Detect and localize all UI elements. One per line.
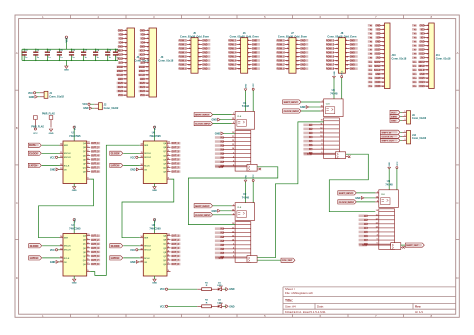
U4 74148 lower pin row 4 [379, 223, 395, 225]
svg-text:IO24: IO24 [420, 81, 426, 84]
connector J9 pin 2 [402, 115, 406, 117]
connector J4 pin 5 [123, 46, 128, 48]
no-connect on U1 second output [257, 168, 261, 170]
svg-text:14: 14 [232, 238, 234, 241]
svg-text:GND: GND [202, 61, 207, 63]
connector J5 pin 8 [198, 51, 202, 53]
svg-text:Size: A4: Size: A4 [285, 305, 296, 309]
svg-text:13: 13 [232, 235, 234, 237]
UU5 output net label QG [91, 166, 100, 169]
svg-text:P4: P4 [370, 36, 373, 39]
connector J9 net label pin 2 [390, 114, 400, 118]
wire input row 5 to U4 [367, 231, 379, 233]
UU7 output net label QF [91, 255, 100, 258]
svg-text:13: 13 [376, 222, 378, 224]
connector J4 pin 17 [123, 94, 128, 96]
UU6 pin QE [167, 158, 171, 160]
svg-text:C2: C2 [25, 50, 27, 52]
wire strobe to U4 [366, 244, 391, 246]
connector J10 pin 13 [380, 73, 385, 75]
svg-text:74148: 74148 [385, 183, 393, 187]
capacitor C7 [83, 49, 85, 52]
svg-text:ROW_6: ROW_6 [228, 61, 237, 63]
svg-text:C6: C6 [72, 50, 74, 52]
U1 input net label row 1 [215, 136, 224, 139]
wire input row 1 to U4 [367, 215, 379, 217]
LED D1 [218, 286, 224, 291]
connector J11 pin 4 [424, 36, 429, 38]
svg-text:Conn_01x03: Conn_01x03 [412, 137, 427, 140]
svg-text:GND: GND [300, 57, 305, 59]
connector J9 pin 3 [402, 120, 406, 122]
connector J3 pin 1 [145, 29, 150, 31]
svg-text:SCLK: SCLK [374, 70, 381, 72]
svg-text:LATCH: LATCH [111, 257, 119, 260]
svg-text:GND: GND [229, 305, 235, 308]
connector J11 pin 6 [424, 45, 429, 47]
U2 74148 lower body [235, 222, 251, 263]
capacitor C9 [107, 49, 109, 52]
U4 input net label row 1 [359, 215, 368, 218]
svg-text:P5: P5 [414, 42, 417, 44]
UU5 pin 13 OE [60, 168, 64, 170]
UU5 pin 9 QH' [87, 178, 91, 180]
UU5 output net label QD [91, 154, 100, 157]
svg-text:OUT_2: OUT_2 [91, 240, 99, 242]
svg-text:1: 1 [233, 113, 234, 115]
connector J10 pin 9 [380, 57, 385, 59]
svg-text:IO4: IO4 [141, 41, 145, 44]
svg-text:MISO: MISO [419, 66, 425, 68]
U3 74148 lower pin row 7 [324, 144, 340, 146]
svg-text:VCC: VCC [130, 156, 135, 159]
wire strobe to U2 [222, 257, 247, 259]
connector J12 wire pin 2 [400, 135, 402, 137]
svg-text:6: 6 [233, 164, 234, 166]
svg-text:GND: GND [300, 52, 305, 54]
U4 input net label row 7 [359, 239, 368, 242]
svg-text:74148: 74148 [242, 104, 250, 108]
svg-text:10: 10 [140, 248, 142, 250]
U4 74148 GND power symbol on top [388, 168, 390, 190]
connector J9 wire pin 1 [400, 111, 402, 113]
svg-text:14: 14 [320, 135, 322, 138]
U1 input net label row 7 [215, 161, 224, 164]
U4 GND tie pin 15 [361, 197, 364, 200]
frame column tick 1 [70, 15, 72, 19]
svg-text:P1: P1 [414, 25, 417, 27]
U3 74148 lower pin row 8 [324, 148, 340, 150]
svg-text:2: 2 [168, 242, 169, 244]
svg-text:11: 11 [60, 152, 62, 154]
svg-text:13: 13 [232, 144, 234, 146]
UU6 VCC tie on SRCLR [136, 156, 138, 158]
U1 pin SHIFT row [232, 114, 236, 116]
U2 74148 lower pin row 3 [235, 232, 251, 234]
svg-text:ROW_8: ROW_8 [179, 69, 188, 71]
svg-text:Conn_01x02: Conn_01x02 [49, 96, 64, 99]
wire U1 output to U2 SER loop [188, 167, 277, 225]
connector J3 pin 9 [145, 62, 150, 64]
svg-text:VCC: VCC [397, 161, 399, 166]
svg-text:Conn_01x02: Conn_01x02 [104, 107, 119, 110]
connector J8 pin 8 [345, 51, 349, 53]
connector J10 pin 16 [380, 85, 385, 87]
connector J8 pin 13 [334, 64, 338, 66]
svg-text:11: 11 [141, 152, 143, 154]
wire input row 5 to U3 [312, 140, 324, 142]
U3 74148 lower pin row 1 [324, 120, 340, 122]
svg-text:OUT_6: OUT_6 [91, 256, 99, 258]
power VCC for R2 [165, 305, 167, 307]
connector J1 pin 2 [40, 96, 44, 98]
connector J12 wire pin 3 [400, 139, 402, 141]
U1 74148 lower pin row 2 [235, 136, 251, 138]
UU7 74HC595 body [63, 234, 87, 277]
svg-text:P13: P13 [369, 74, 373, 76]
svg-text:P7: P7 [414, 50, 417, 52]
connector J10 pin 12 [380, 69, 385, 71]
UU6 74HC595 VCC power symbol [154, 128, 156, 141]
U3 74148 GND power symbol on top [333, 77, 335, 99]
svg-text:GND: GND [64, 70, 69, 72]
svg-text:OUT_4: OUT_4 [171, 154, 179, 157]
svg-text:P15: P15 [369, 82, 373, 84]
UU6 pin QF [167, 162, 171, 164]
UU5 74HC595 VCC power symbol [73, 128, 75, 141]
svg-text:SRCLK: SRCLK [144, 153, 151, 155]
wire input row 7 to U4 [367, 239, 379, 241]
connector J12 net label pin 2 [381, 134, 401, 138]
svg-text:ROW_4: ROW_4 [326, 51, 335, 54]
wire input row 3 to U2 [223, 236, 235, 238]
svg-text:3: 3 [168, 246, 169, 248]
svg-text:ROW_7: ROW_7 [228, 65, 237, 67]
svg-text:P11: P11 [413, 66, 417, 68]
svg-text:GND: GND [140, 30, 145, 32]
svg-text:GND: GND [118, 47, 123, 49]
wire input row 6 to U1 [223, 157, 235, 159]
connector J9 wire pin 2 [400, 115, 402, 117]
UU7 pin 12 RCLK [60, 257, 64, 259]
svg-text:CLOCK_INPUT: CLOCK_INPUT [339, 202, 355, 204]
U3 input net label row 6 [303, 144, 312, 147]
wire input row 8 to U3 [312, 152, 324, 154]
UU5 pin QC [87, 150, 91, 152]
U4 input net label row 3 [359, 223, 368, 226]
svg-text:6: 6 [321, 152, 322, 154]
connector J11 pin 15 [424, 81, 429, 83]
svg-text:LATCH: LATCH [30, 257, 38, 260]
svg-text:GND: GND [350, 44, 355, 46]
wire U6 QH' to U8 SER [122, 179, 174, 238]
svg-text:CLK: CLK [237, 207, 242, 209]
UU6 GND tie on OE [136, 168, 139, 171]
svg-text:Rev:: Rev: [415, 305, 421, 309]
svg-text:OUT_8: OUT_8 [171, 264, 179, 266]
connector J3 pin 16 [145, 90, 150, 92]
UU8 74HC595 VCC power symbol [154, 221, 156, 234]
svg-text:ROW_1: ROW_1 [228, 40, 237, 42]
U3 74148 lower pin row 6 [324, 140, 340, 142]
UU5 pin QH [87, 171, 91, 173]
svg-text:GND: GND [355, 197, 361, 200]
connector J7 pin 6 [296, 47, 300, 49]
UU6 pin 11 SRCLK [140, 152, 144, 154]
svg-text:12: 12 [232, 231, 234, 233]
UU5 output net label QA [91, 142, 100, 145]
svg-text:74HC595: 74HC595 [69, 134, 81, 138]
connector J3 pin 13 [145, 78, 150, 80]
UU7 output net label QG [91, 259, 100, 262]
svg-text:ROW_3: ROW_3 [276, 48, 285, 50]
connector J10 pin 4 [380, 36, 385, 38]
U1 input net label row 2 [215, 140, 224, 143]
connector J7 pin 7 [285, 51, 289, 53]
svg-text:GND: GND [152, 283, 157, 285]
svg-text:ROW_2: ROW_2 [179, 44, 188, 46]
svg-text:IO22: IO22 [420, 54, 426, 56]
svg-text:ROW_8: ROW_8 [228, 69, 237, 71]
U3 input net label row 7 [303, 148, 312, 151]
svg-text:OUT_1: OUT_1 [171, 143, 179, 145]
frame column tick 3 [181, 15, 183, 19]
svg-text:SRCLR: SRCLR [64, 157, 71, 159]
UU8 GND tie on OE [136, 261, 139, 264]
svg-text:C5: C5 [60, 50, 62, 52]
U1 74148 inner function box [237, 119, 246, 126]
svg-text:GND: GND [300, 106, 306, 109]
wire input row 1 to U2 [223, 228, 235, 230]
UU6 74HC595 body [143, 141, 167, 184]
svg-text:3: 3 [168, 154, 169, 156]
svg-text:1u: 1u [109, 57, 112, 59]
svg-text:1: 1 [404, 131, 405, 133]
connector J6 pin 15 [237, 68, 241, 70]
U2 74148 output box [247, 256, 257, 263]
svg-text:10: 10 [232, 132, 234, 134]
U1 74148 lower pin row 4 [235, 145, 251, 147]
connector J5 pin 16 [198, 68, 202, 70]
connector J2 VCC [88, 103, 90, 105]
svg-text:P1: P1 [370, 25, 373, 27]
U1 input net label row 5 [215, 152, 224, 155]
connector J6 pin 2 [248, 39, 252, 41]
svg-text:2: 2 [377, 200, 378, 202]
svg-text:GND: GND [300, 40, 305, 42]
svg-text:GND: GND [252, 48, 257, 50]
svg-text:GND: GND [215, 132, 221, 135]
U4 74148 lower body [379, 209, 395, 250]
connector J3 pin 5 [145, 46, 150, 48]
connector J6 pin 8 [248, 51, 252, 53]
wire U2 second output to label [257, 259, 281, 261]
capacitor C4 [46, 49, 48, 52]
connector J10 pin 3 [380, 32, 385, 34]
svg-text:SER: SER [144, 238, 149, 240]
svg-text:IN4: IN4 [220, 149, 224, 152]
connector J5 pin 6 [198, 47, 202, 49]
connector J11 pin 8 [424, 53, 429, 55]
wire U2 output up to U3 SER chain [257, 122, 324, 258]
svg-text:R: R [206, 285, 208, 287]
wire LATCH to UU8 RCLK [123, 257, 140, 259]
svg-text:P16: P16 [369, 86, 373, 88]
svg-text:15: 15 [232, 118, 234, 120]
svg-text:GND: GND [118, 30, 123, 32]
connector J3 pin 14 [145, 82, 150, 84]
svg-text:IO4: IO4 [421, 36, 425, 39]
svg-text:RCLK: RCLK [144, 165, 150, 167]
UU8 output net label QA [171, 234, 180, 237]
svg-text:GND: GND [202, 44, 207, 46]
U2 input net label row 6 [215, 248, 224, 251]
U4 74148 lower pin row 1 [379, 211, 395, 213]
svg-text:GND: GND [252, 69, 257, 71]
connector J4 body [127, 28, 135, 97]
connector J7 pin 4 [296, 43, 300, 45]
svg-text:GND: GND [252, 61, 257, 63]
connector J8 pin 2 [345, 39, 349, 41]
wire CLOCK to UU7 SRCLK [42, 245, 59, 247]
connector J7 pin 11 [285, 60, 289, 62]
net label COLUMN on U2 second output [281, 258, 295, 262]
svg-text:VCC: VCC [66, 37, 69, 42]
svg-text:ROW_2: ROW_2 [276, 44, 285, 46]
U4 global label CLOCK_INPUT [338, 200, 357, 204]
U2 74148 lower pin row 1 [235, 224, 251, 226]
wire DATA to UU5 SER [42, 144, 60, 146]
UU7 global label CLOCK [29, 244, 42, 248]
svg-text:C9: C9 [109, 50, 111, 52]
svg-text:P10: P10 [413, 62, 417, 64]
UU6 pin 10 SRCLR [140, 156, 144, 158]
svg-text:SHIFT_INPUT: SHIFT_INPUT [195, 206, 210, 208]
U1 74148 upper body [235, 112, 255, 130]
svg-text:IO4: IO4 [119, 41, 123, 44]
svg-text:C7: C7 [85, 50, 87, 52]
wire input row 6 to U3 [312, 144, 324, 146]
UU7 GND power symbol [73, 276, 75, 279]
connector J6 body [241, 38, 248, 73]
wire U7 QH' to U6 SER [90, 145, 140, 275]
connector J3 pin 12 [145, 74, 150, 76]
connector J4 pin 9 [123, 62, 128, 64]
UU7 global label LATCH [29, 256, 42, 260]
UU7 pin 11 SRCLK [60, 245, 64, 247]
svg-text:Id: 1/1: Id: 1/1 [415, 310, 423, 314]
svg-text:74HC595: 74HC595 [149, 227, 161, 231]
U4 input net label row 4 [359, 227, 368, 230]
net label SHIFT_OUT on U4 output [405, 243, 424, 247]
svg-text:GND: GND [245, 174, 247, 179]
svg-text:P15: P15 [413, 82, 417, 84]
wire input row 1 to U1 [223, 136, 235, 138]
svg-text:KiCad E.D.A. kicad 5.1.5-1.fc: KiCad E.D.A. kicad 5.1.5-1.fc31 [285, 310, 326, 314]
svg-text:OUT_6: OUT_6 [171, 163, 179, 165]
svg-text:COL_OUT: COL_OUT [282, 260, 293, 262]
connector J4 pin 8 [123, 58, 128, 60]
svg-text:1: 1 [233, 204, 234, 206]
U2 74148 lower pin row 6 [235, 244, 251, 246]
svg-text:MOSI: MOSI [117, 67, 123, 69]
svg-text:OUT_5: OUT_5 [91, 252, 99, 254]
svg-text:B: B [16, 126, 18, 130]
connector J3 pin 17 [145, 94, 150, 96]
svg-text:OUT_7: OUT_7 [171, 168, 179, 170]
svg-text:12: 12 [60, 256, 62, 258]
connector J11 pin 9 [424, 57, 429, 59]
svg-text:IO23: IO23 [375, 86, 381, 88]
svg-text:GND: GND [252, 57, 257, 59]
UU7 output net label QE [91, 251, 100, 254]
U2 74148 lower pin row 9 [235, 256, 251, 258]
svg-text:GND: GND [202, 65, 207, 67]
svg-text:CLOCK: CLOCK [30, 245, 39, 248]
svg-text:A: A [16, 51, 18, 55]
svg-text:1u: 1u [72, 57, 75, 59]
U2 74148 GND power symbol on top [245, 181, 247, 203]
UU5 output net label QF [91, 162, 100, 165]
connector J11 pin 7 [424, 49, 429, 51]
UU6 output net label QB [171, 146, 180, 149]
svg-text:2: 2 [404, 135, 405, 137]
connector J6 pin 7 [237, 51, 241, 53]
svg-text:GND: GND [375, 25, 380, 27]
svg-text:13: 13 [140, 168, 142, 170]
UU6 pin 9 QH' [167, 178, 171, 180]
svg-text:VCC: VCC [74, 218, 76, 223]
frame column tick 5 [292, 15, 294, 19]
svg-text:SER: SER [64, 145, 69, 147]
UU7 pin 14 SER [60, 237, 64, 239]
svg-text:CLOCK: CLOCK [111, 152, 120, 155]
svg-text:SRCLR: SRCLR [64, 250, 71, 252]
svg-text:IO17: IO17 [140, 51, 146, 53]
wire GND rail bottom of capacitor bank [22, 59, 118, 61]
connector J5 pin 12 [198, 60, 202, 62]
svg-text:GND: GND [419, 74, 424, 76]
svg-text:Title:: Title: [285, 299, 293, 303]
svg-text:6: 6 [168, 259, 169, 261]
svg-text:5: 5 [233, 252, 234, 254]
svg-text:C8: C8 [97, 50, 99, 52]
svg-text:SER: SER [64, 238, 69, 240]
UU8 GND power symbol [154, 276, 156, 279]
svg-text:OUT_1: OUT_1 [91, 236, 99, 238]
capacitor C5 [58, 49, 60, 52]
UU8 pin QF [167, 255, 171, 257]
U2 input net label row 8 [215, 256, 224, 259]
U3 74148 lower pin row 2 [324, 124, 340, 126]
connector J6 pin 5 [237, 47, 241, 49]
U4 bottom strobe net label [359, 244, 367, 247]
connector J5 pin 9 [187, 56, 191, 58]
svg-text:15: 15 [87, 142, 89, 144]
U3 input net label row 1 [303, 124, 312, 127]
svg-text:QG: QG [163, 167, 167, 169]
connector J4 pin 11 [123, 70, 128, 72]
svg-text:15: 15 [321, 106, 323, 108]
connector J6 pin 6 [248, 47, 252, 49]
svg-text:GND: GND [140, 47, 145, 49]
connector J8 pin 3 [334, 43, 338, 45]
UU6 pin QC [167, 150, 171, 152]
connector J8 pin 1 [334, 39, 338, 41]
svg-text:GND: GND [49, 133, 54, 135]
svg-text:GND: GND [211, 210, 217, 213]
wire CLOCK to UU6 SRCLK [123, 152, 140, 154]
